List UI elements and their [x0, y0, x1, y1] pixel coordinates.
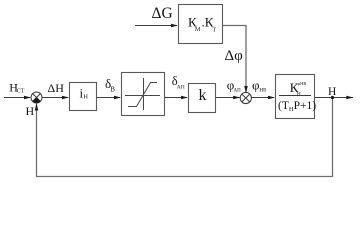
svg-text:Н: Н [297, 92, 301, 98]
svg-text:Δφ: Δφ [225, 48, 244, 64]
svg-text:φНВ: φНВ [298, 81, 307, 86]
svg-text:В: В [110, 85, 115, 93]
svg-text:ΔН: ΔН [48, 81, 65, 95]
svg-text:Н: Н [83, 94, 88, 101]
svg-text:СТ: СТ [17, 89, 25, 95]
svg-text:k: k [199, 87, 207, 104]
svg-text:(ТНР+1): (ТНР+1) [278, 100, 316, 113]
svg-text:НВ: НВ [260, 89, 268, 94]
svg-text:АП: АП [234, 89, 242, 94]
svg-text:φ: φ [252, 78, 260, 93]
svg-text:М: М [195, 27, 201, 33]
svg-text:ΔG: ΔG [152, 5, 173, 22]
svg-text:Н: Н [328, 86, 336, 98]
svg-text:АП: АП [177, 84, 185, 90]
svg-text:Н: Н [26, 104, 35, 118]
svg-text:Т: Т [213, 28, 217, 34]
